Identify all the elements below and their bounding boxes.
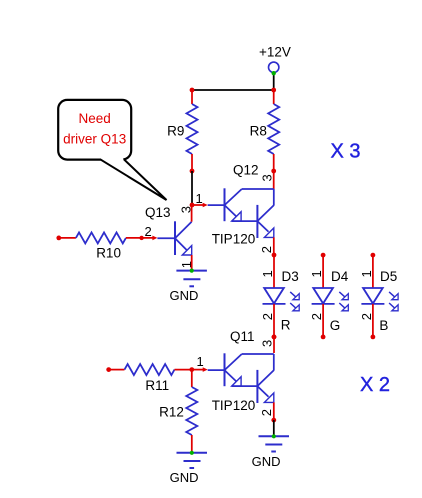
- svg-text:2: 2: [259, 246, 274, 253]
- svg-text:+12V: +12V: [259, 45, 291, 60]
- wire: R9 bottom to node (black): [191, 171, 193, 205]
- node B: D3 cathode / Q11 collector node: [272, 335, 277, 354]
- svg-text:3: 3: [260, 174, 275, 181]
- callout bubble "Need driver Q13": [58, 100, 166, 200]
- svg-text:GND: GND: [170, 470, 199, 485]
- svg-text:D3: D3: [282, 269, 299, 284]
- transistor Q12 (TIP120 darlington): [208, 163, 275, 254]
- svg-text:2: 2: [309, 313, 324, 320]
- wire: Q13 emitter to ground: [191, 255, 193, 271]
- wire: Q13 collector to node: [191, 205, 193, 222]
- resistor R9: [167, 90, 197, 173]
- wire: Q11 emitter down: [273, 402, 275, 420]
- svg-text:R12: R12: [159, 405, 184, 420]
- svg-text:R: R: [281, 318, 291, 333]
- svg-text:X 2: X 2: [360, 374, 390, 396]
- svg-text:TIP120: TIP120: [212, 231, 256, 246]
- ground GND (under Q13): [170, 269, 207, 303]
- svg-text:1: 1: [196, 191, 203, 206]
- svg-text:G: G: [330, 318, 341, 333]
- svg-text:Need: Need: [79, 111, 111, 126]
- ground GND (under Q11): [252, 434, 289, 469]
- transistor Q11 (TIP120 darlington): [208, 329, 275, 416]
- svg-text:driver Q13: driver Q13: [63, 132, 126, 147]
- svg-text:2: 2: [260, 313, 275, 320]
- LED D4: [309, 253, 349, 340]
- resistor R10: [56, 232, 157, 260]
- node A: Q13 collector / Q12 base node: [190, 191, 208, 207]
- svg-text:D4: D4: [331, 269, 349, 284]
- svg-text:1: 1: [359, 270, 374, 277]
- junction on rail (R8 top): [271, 88, 276, 93]
- svg-text:D5: D5: [380, 269, 397, 284]
- svg-text:2: 2: [145, 224, 152, 239]
- wire: to ground (black): [273, 420, 275, 436]
- svg-text:TIP120: TIP120: [212, 398, 256, 413]
- resistor R8: [250, 90, 280, 189]
- svg-text:2: 2: [259, 409, 274, 416]
- svg-text:Q11: Q11: [230, 329, 255, 344]
- svg-text:GND: GND: [170, 288, 199, 303]
- power +12V port: [259, 45, 291, 73]
- transistor Q13: [145, 205, 195, 268]
- svg-text:R11: R11: [145, 378, 169, 393]
- svg-text:2: 2: [359, 313, 374, 320]
- svg-text:R9: R9: [167, 124, 184, 139]
- svg-text:1: 1: [197, 354, 204, 369]
- svg-text:R8: R8: [250, 124, 267, 139]
- LED D3: [260, 253, 299, 340]
- ground GND (under R12): [170, 451, 207, 485]
- svg-text:1: 1: [309, 270, 324, 277]
- junction on rail (R9 top): [190, 88, 195, 93]
- resistor R12: [159, 370, 197, 453]
- wire: +12V down to rail: [273, 73, 275, 90]
- svg-text:Q12: Q12: [233, 163, 259, 178]
- green pin dot on +12V port: [272, 71, 276, 75]
- resistor R11: [106, 364, 192, 393]
- node C: R11 / R12 / Q11 base node: [189, 354, 207, 372]
- svg-text:B: B: [379, 318, 388, 333]
- svg-text:X 3: X 3: [331, 141, 361, 163]
- svg-text:1: 1: [260, 270, 275, 277]
- svg-text:GND: GND: [252, 454, 281, 469]
- wire: top rail horizontal: [192, 89, 274, 91]
- wire: Q12 emitter down to LED node: [273, 237, 275, 255]
- junction: Q11 emitter pin 2: [271, 418, 276, 423]
- LED D5: [359, 253, 398, 340]
- svg-text:3: 3: [260, 340, 275, 347]
- svg-text:Q13: Q13: [145, 205, 171, 220]
- svg-text:R10: R10: [96, 246, 121, 261]
